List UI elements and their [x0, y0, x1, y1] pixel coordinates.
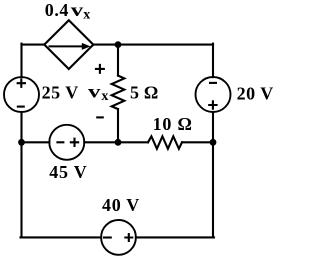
- svg-text:x: x: [83, 8, 90, 23]
- wire bottom-left horizontal: [21, 236, 102, 238]
- wire mid-left horizontal: [22, 141, 50, 143]
- plus sign of vx polarity: [95, 64, 105, 74]
- resistor R2 10 ohm zigzag: [148, 136, 182, 149]
- junction node C: [18, 139, 25, 146]
- svg-text:20 V: 20 V: [237, 83, 274, 103]
- svg-text:x: x: [101, 89, 108, 104]
- wire right vertical between node D and 20V: [212, 112, 214, 142]
- wire top-left horizontal: [22, 44, 45, 46]
- arrow inside dependent source: [49, 43, 91, 50]
- svg-text:10 Ω: 10 Ω: [153, 114, 193, 134]
- svg-text:5 Ω: 5 Ω: [130, 82, 159, 102]
- junction node D: [210, 139, 217, 146]
- svg-text:40 V: 40 V: [102, 195, 140, 215]
- dependent source U1 diamond: [44, 20, 93, 69]
- voltage source V2 20V circle: [196, 77, 231, 112]
- svg-text:v: v: [88, 82, 101, 102]
- svg-text:0.4: 0.4: [45, 0, 69, 20]
- svg-text:v: v: [71, 0, 84, 20]
- plus sign in 20V source: [208, 100, 217, 109]
- wire mid horizontal right of 10-ohm: [182, 141, 213, 143]
- minus sign in 45V source: [56, 141, 64, 143]
- junction node A: [115, 41, 122, 48]
- wire 5-ohm column lower: [117, 109, 119, 142]
- wire mid horizontal between 45V and node B: [84, 141, 148, 143]
- wire left vertical lower: [20, 142, 22, 237]
- wire right vertical lower: [212, 142, 214, 237]
- wire 5-ohm column upper: [117, 45, 119, 76]
- plus sign in 45V source: [70, 138, 79, 147]
- voltage source V3 45V circle: [49, 125, 84, 160]
- resistor R1 5 ohm zigzag: [112, 76, 125, 110]
- wire left vertical between 25V and node C: [20, 112, 22, 142]
- junction node B: [115, 139, 122, 146]
- plus sign in 40V source: [124, 233, 133, 242]
- minus sign in 40V source: [103, 236, 112, 238]
- wire left vertical upper: [20, 44, 22, 78]
- wire bottom-right horizontal: [136, 236, 214, 238]
- svg-text:25 V: 25 V: [42, 83, 79, 103]
- voltage source V1 25V circle: [4, 77, 39, 112]
- wire right vertical upper: [212, 44, 214, 78]
- voltage source V4 40V circle: [101, 220, 136, 255]
- wire top horizontal: [93, 44, 213, 46]
- plus sign in 25V source: [17, 79, 26, 88]
- minus sign in 20V source: [209, 82, 217, 84]
- minus sign in 25V source: [17, 106, 25, 108]
- minus sign of vx polarity: [96, 116, 104, 118]
- svg-text:45 V: 45 V: [49, 162, 87, 182]
